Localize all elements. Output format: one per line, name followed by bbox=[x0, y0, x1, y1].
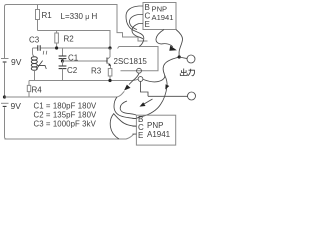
svg-text:C3 = 1000pF 3kV: C3 = 1000pF 3kV bbox=[34, 119, 97, 128]
svg-text:A1941: A1941 bbox=[147, 130, 171, 139]
node collector top junction bbox=[108, 46, 111, 49]
wire S1 from top package to arrow bbox=[156, 30, 173, 47]
resistor R1 bbox=[36, 5, 53, 31]
svg-text:PNP: PNP bbox=[147, 121, 163, 130]
transistor package PNP A1941 top bbox=[139, 3, 176, 30]
terminal circle on rail bbox=[138, 77, 143, 82]
capacitor C3 bbox=[29, 36, 110, 51]
transistor Q1 2SC1815 bbox=[107, 48, 147, 69]
capacitor C1 bbox=[59, 48, 79, 63]
inductor L coil bbox=[31, 51, 47, 71]
node R2/C3 junction bbox=[55, 46, 58, 49]
annotation arrow to bottom package bbox=[140, 99, 153, 107]
output terminal 1 bbox=[187, 55, 195, 63]
resistor R2 bbox=[55, 31, 74, 49]
wire step below terminal circle bbox=[141, 82, 149, 97]
arrow on S1b bbox=[165, 84, 169, 89]
wire C pin arc to ground rail bbox=[110, 114, 136, 139]
wire to output terminal 1 bbox=[179, 57, 187, 59]
svg-text:C3: C3 bbox=[29, 36, 40, 45]
capacitor list text bbox=[34, 101, 98, 128]
wire S3 node to terminal circle bbox=[143, 57, 179, 82]
wire base bbox=[63, 60, 107, 62]
wire top PNP collector pin loop bbox=[130, 15, 140, 30]
wire top PNP base pin loop bbox=[126, 6, 144, 47]
svg-text:E: E bbox=[138, 131, 143, 140]
svg-text:R1: R1 bbox=[42, 11, 53, 20]
svg-text:R4: R4 bbox=[32, 86, 43, 95]
annotation arrow to base point bbox=[124, 73, 139, 90]
arrow on S1 pointing at node bbox=[169, 46, 177, 51]
node base junction bbox=[61, 59, 64, 62]
resistor R3 bbox=[91, 67, 112, 81]
svg-text:9V: 9V bbox=[11, 101, 22, 111]
svg-text:R2: R2 bbox=[64, 35, 75, 44]
label output bbox=[180, 69, 195, 76]
wire inner loop to package corner bbox=[120, 101, 136, 115]
wire R1 bottom rail to collector drop bbox=[38, 31, 111, 49]
wire loop ground to bottom package B pin bbox=[114, 97, 136, 118]
wire emitter rail y80 bbox=[29, 79, 138, 80]
svg-text:A1941: A1941 bbox=[152, 13, 174, 22]
wire ground rail y97 bbox=[5, 91, 125, 97]
wire bottom rail bbox=[5, 134, 134, 139]
transistor package PNP A1941 bottom bbox=[133, 115, 176, 145]
wire coil to rail bbox=[34, 70, 36, 80]
node battery junction bbox=[3, 95, 6, 98]
wire S1b branch down to bottom package bbox=[136, 76, 167, 119]
svg-text:C2: C2 bbox=[67, 66, 78, 75]
capacitor C2 bbox=[59, 61, 78, 81]
node output junction bbox=[178, 55, 181, 58]
wire C3 to coil bbox=[33, 48, 35, 56]
svg-text:E: E bbox=[145, 20, 150, 29]
svg-text:9V: 9V bbox=[11, 57, 22, 67]
wire top PNP emitter pin bbox=[132, 24, 143, 40]
svg-text:C1 = 180pF 180V: C1 = 180pF 180V bbox=[34, 101, 98, 110]
wire S2 to output node bbox=[176, 30, 183, 57]
svg-text:2SC1815: 2SC1815 bbox=[114, 57, 148, 66]
output terminal 2 bbox=[188, 92, 196, 100]
svg-text:R3: R3 bbox=[91, 67, 102, 76]
transistor package outline 2SC1815 bbox=[118, 47, 159, 71]
battery B1 9V bbox=[1, 57, 22, 97]
svg-text:C2 = 135pF 180V: C2 = 135pF 180V bbox=[34, 110, 98, 119]
resistor R4 bbox=[27, 81, 42, 98]
battery B2 9V bbox=[1, 101, 21, 139]
svg-text:L=330 μ H: L=330 μ H bbox=[61, 12, 98, 21]
wire left rail top bbox=[5, 5, 148, 59]
node R3 bottom junction bbox=[108, 79, 111, 82]
wire to output terminal 2 bbox=[148, 95, 188, 97]
terminal hole circle bbox=[137, 68, 142, 73]
